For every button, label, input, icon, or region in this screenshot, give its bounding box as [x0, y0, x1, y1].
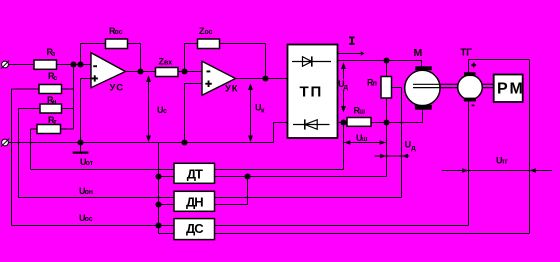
op-amp UK	[202, 61, 236, 95]
wire TG plus top horizontal	[469, 59, 530, 61]
svg-text:вх: вх	[164, 59, 172, 66]
wire Rt down to Uot line	[30, 129, 32, 170]
wire DN lower vertical	[247, 177, 249, 205]
svg-text:тг: тг	[502, 159, 508, 166]
resistor Rn	[40, 104, 62, 113]
svg-text:УС: УС	[110, 82, 124, 93]
arrow I (current direction)	[338, 51, 365, 55]
node shunt right	[383, 119, 389, 125]
TG minus sign	[472, 105, 475, 107]
wire US plus down to common	[80, 79, 82, 143]
svg-text:с: с	[53, 75, 57, 82]
svg-text:с: с	[163, 108, 167, 115]
svg-text:н: н	[52, 99, 56, 106]
wire DT lower vertical (shunt right)	[386, 123, 388, 177]
node bus DT	[155, 173, 161, 179]
arrow Ud2 (divider voltage)	[375, 154, 410, 158]
svg-text:ДС: ДС	[186, 221, 204, 236]
sensor DS	[174, 219, 215, 240]
svg-text:п: п	[373, 80, 377, 87]
ground bar	[73, 152, 89, 154]
node UK plus common	[181, 139, 187, 145]
wire input1 to Rz	[8, 64, 34, 66]
arrow Ud (TP output voltage)	[341, 62, 346, 112]
svg-text:ос: ос	[205, 29, 213, 36]
wire TP bottom to motor	[338, 122, 423, 124]
impedance Zos	[198, 39, 220, 49]
sensor DN	[174, 191, 215, 211]
wire Rn down to Uon line	[18, 109, 20, 198]
wire UK plus input	[185, 83, 203, 85]
wire Ros right leg	[140, 44, 142, 72]
op-amp US	[91, 53, 125, 88]
op-amp US plus sign	[92, 75, 98, 81]
resistor Rz	[34, 60, 57, 69]
motor top brush block	[415, 66, 432, 70]
tachogenerator TG	[458, 75, 483, 100]
TP bottom diode	[293, 119, 330, 129]
wire DT lower line	[159, 176, 387, 178]
wire TG plus vertical	[468, 60, 470, 73]
svg-text:он: он	[85, 189, 94, 196]
wire DS lower line	[159, 233, 530, 235]
input terminal 2	[1, 139, 9, 147]
arrow Uc (US output voltage)	[146, 75, 151, 142]
wire Rp top lead	[386, 61, 388, 77]
svg-text:т: т	[53, 119, 57, 126]
wire Rp bottom lead	[386, 98, 388, 123]
wire UK plus down to common	[184, 84, 186, 143]
node bus DS	[155, 222, 161, 228]
resistor Rt	[37, 125, 61, 134]
svg-text:М: М	[414, 47, 423, 59]
node sum2	[77, 61, 83, 67]
potentiometer Rp	[381, 77, 392, 99]
wire Zos left leg	[184, 44, 186, 72]
wire US plus input	[81, 78, 92, 80]
node DT-DN link	[244, 173, 250, 179]
resistor Rc	[39, 85, 62, 94]
wire Rp wiper stub	[392, 87, 402, 89]
svg-text:д: д	[411, 145, 416, 152]
svg-text:ТП: ТП	[300, 83, 324, 100]
motor M	[405, 70, 440, 105]
svg-text:ш: ш	[359, 109, 365, 116]
node UK out	[262, 75, 268, 81]
wire motor top lead	[421, 61, 423, 67]
wire Ros top right	[128, 43, 141, 45]
TG bottom brush block	[464, 98, 476, 102]
wire Rc down to Uoc line	[11, 89, 13, 226]
wire TG minus vertical	[468, 102, 470, 226]
wire Uot line	[31, 169, 344, 171]
wire summing bus	[73, 65, 75, 130]
wire common rail into TP	[274, 122, 288, 124]
block RM	[494, 75, 523, 103]
TP top diode	[292, 56, 331, 66]
svg-text:ТГ: ТГ	[460, 48, 472, 59]
op-amp UK minus sign	[207, 71, 211, 73]
shunt resistor Rsh	[347, 118, 371, 127]
svg-text:ос: ос	[115, 29, 123, 36]
TG top brush block	[464, 72, 476, 76]
wire Rc right stub	[61, 88, 74, 90]
node Rp top	[383, 57, 389, 63]
wire Zos right leg	[265, 44, 267, 79]
wire Rz to opamp minus	[56, 64, 91, 66]
op-amp UK plus sign	[205, 81, 212, 88]
wire Rc left	[12, 88, 40, 90]
node US out	[137, 68, 143, 74]
op-amp US minus sign	[93, 65, 97, 67]
wire common rail up to TP	[273, 123, 275, 143]
ground stem	[80, 143, 82, 152]
wire UK output to TP	[235, 78, 288, 80]
impedance Zvx	[156, 68, 179, 77]
motor bottom brush block	[415, 105, 432, 110]
wire Ros top left	[81, 43, 106, 45]
arrow Uk (UK output voltage)	[248, 83, 253, 142]
svg-text:ш: ш	[362, 136, 368, 143]
svg-text:УК: УК	[225, 83, 238, 94]
node shunt left	[340, 119, 346, 125]
node bus DN	[155, 201, 161, 207]
wire Uon line	[19, 197, 402, 199]
svg-text:от: от	[86, 160, 94, 167]
arrow Ush (shunt voltage)	[344, 140, 386, 144]
svg-text:РМ: РМ	[497, 80, 525, 97]
node sum1	[70, 61, 76, 67]
wire wiper down to Un line	[401, 88, 403, 198]
wire Rt right stub	[61, 128, 74, 130]
wire Ros left leg	[80, 44, 82, 65]
wire Uos line	[12, 225, 469, 227]
wire Rn left	[19, 108, 41, 110]
svg-text:д: д	[344, 84, 349, 91]
resistor Ros	[106, 39, 128, 49]
shaft double line TG to RM	[482, 84, 494, 87]
wire TP top output to motor	[338, 60, 422, 62]
node ground tap	[77, 139, 83, 145]
wire Rt left	[31, 128, 38, 130]
wire Zvx to UK minus	[178, 71, 202, 73]
block TP (thyristor converter)	[288, 45, 338, 139]
wire US output	[125, 71, 156, 73]
svg-text:ос: ос	[85, 216, 93, 223]
svg-text:ДТ: ДТ	[187, 166, 203, 181]
wire common rail from input2	[8, 142, 274, 144]
svg-text:ДН: ДН	[186, 194, 203, 209]
node UK minus	[181, 68, 187, 74]
wire Zos top left	[185, 43, 198, 45]
TG plus sign	[471, 63, 476, 68]
wire Zos top right	[220, 43, 266, 45]
wire TG plus right vertical	[529, 60, 531, 234]
wire DT upper vertical (shunt left)	[343, 123, 345, 170]
wire motor bottom lead	[422, 110, 424, 123]
wire DN lower line	[159, 204, 248, 206]
label I	[349, 37, 354, 45]
svg-text:з: з	[52, 51, 56, 58]
arrow Utg (tacho voltage)	[442, 168, 552, 172]
wire Rn right stub	[61, 108, 74, 110]
shaft double line M to TG	[413, 84, 458, 87]
svg-text:к: к	[261, 108, 265, 115]
svg-text:U: U	[405, 140, 412, 150]
input terminal 1	[1, 61, 9, 69]
wire sensor common bus	[158, 143, 160, 234]
sensor DT	[174, 163, 215, 183]
